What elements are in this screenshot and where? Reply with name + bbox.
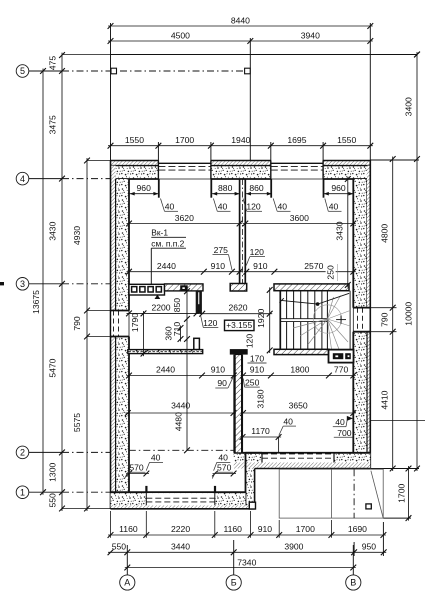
stair direction line with dot — [281, 300, 317, 304]
vent squares — [132, 287, 137, 292]
mid wall top cap — [230, 349, 248, 355]
top wall pier left (stipple) — [111, 166, 159, 179]
svg-text:40: 40 — [218, 202, 228, 212]
axis 4 circle — [16, 172, 29, 185]
left wall door opening dashes — [113, 311, 115, 337]
svg-text:1550: 1550 — [125, 135, 144, 145]
mid hatched wall (axis B lower) — [235, 355, 241, 453]
right wall door opening white — [354, 309, 369, 331]
left wall cladding band — [111, 166, 116, 509]
dimension row 1550/1700/1940/1695/1550 — [108, 145, 373, 147]
svg-text:2620: 2620 — [228, 303, 247, 313]
winder fan lines — [327, 296, 340, 320]
extension line x250 — [249, 38, 251, 161]
rotated 250 at right wall — [326, 265, 336, 280]
bottom chain 550/3440/3900/950 — [108, 551, 386, 553]
dim 570 left — [127, 473, 150, 475]
svg-text:3440: 3440 — [171, 401, 190, 411]
room dim row 3600 — [243, 223, 356, 225]
svg-text:170: 170 — [250, 354, 265, 364]
right wall cladding — [367, 166, 370, 469]
svg-text:40: 40 — [278, 202, 288, 212]
svg-text:3940: 3940 — [301, 30, 320, 40]
top wall pier middle — [211, 166, 271, 179]
step wall vertical — [246, 469, 255, 509]
top wall cladding over piers — [111, 161, 159, 166]
extension to circle A — [126, 545, 128, 575]
svg-text:3180: 3180 — [256, 389, 266, 408]
svg-text:3430: 3430 — [48, 221, 58, 240]
svg-text:1: 1 — [20, 487, 25, 497]
svg-text:360: 360 — [163, 326, 173, 341]
dim 570 right — [213, 473, 237, 475]
right wall stipple lower — [353, 332, 367, 453]
canopy post left — [111, 68, 117, 74]
svg-text:770: 770 — [334, 365, 349, 375]
jamb dim 960 left window — [129, 193, 158, 195]
stair left stringer — [279, 291, 281, 350]
svg-text:1800: 1800 — [290, 365, 309, 375]
axis 1 circle — [16, 486, 29, 499]
top wall pier right — [323, 166, 370, 179]
left wall door opening white — [111, 311, 115, 335]
thin wall hall/lower-left room — [128, 350, 203, 354]
svg-text:40: 40 — [165, 202, 175, 212]
svg-text:1700: 1700 — [175, 135, 194, 145]
bottom-left wall window opening — [146, 493, 215, 505]
jamb stub extensions — [158, 179, 160, 198]
svg-text:10000: 10000 — [404, 302, 414, 326]
vent block right (2 squares) — [329, 350, 354, 363]
right 1700 porch — [408, 466, 410, 521]
vent square inside beam — [180, 285, 188, 291]
svg-text:1695: 1695 — [287, 135, 306, 145]
dim 2620 — [200, 313, 273, 315]
vdim 360 — [180, 326, 182, 342]
note leader — [150, 248, 152, 285]
axis 4 line — [29, 178, 62, 180]
svg-text:910: 910 — [211, 365, 226, 375]
row 3440/3650 — [125, 412, 236, 414]
svg-text:570: 570 — [129, 463, 144, 473]
dimension 8440 top — [108, 25, 373, 27]
right overall 3400 / 10000 — [416, 52, 418, 471]
svg-text:910: 910 — [258, 524, 273, 534]
svg-text:40: 40 — [329, 202, 339, 212]
window W2 frame line — [271, 162, 323, 164]
svg-text:790: 790 — [72, 316, 82, 331]
axis 3 circle — [16, 278, 29, 291]
stair top beam (hatched) — [274, 284, 349, 291]
svg-text:4800: 4800 — [379, 224, 389, 243]
svg-text:2570: 2570 — [304, 261, 323, 271]
jamb dim 860 — [245, 193, 271, 195]
extension line right x370 — [369, 23, 371, 161]
axis V circle — [346, 575, 361, 590]
axis A circle — [120, 575, 135, 590]
svg-text:1920: 1920 — [256, 309, 266, 328]
mid row 2440/910 left — [127, 375, 237, 377]
svg-text:4930: 4930 — [72, 226, 82, 245]
svg-text:3600: 3600 — [290, 213, 309, 223]
dimension 4500 / 3940 — [108, 40, 373, 42]
axis B circle — [226, 575, 241, 590]
svg-text:550: 550 — [48, 493, 58, 508]
svg-text:475: 475 — [48, 56, 58, 71]
svg-text:см. п.п.2: см. п.п.2 — [151, 239, 184, 249]
svg-text:3650: 3650 — [289, 401, 308, 411]
svg-text:+3.155: +3.155 — [226, 320, 252, 330]
bottom overall 7340 — [125, 567, 356, 569]
svg-text:250: 250 — [326, 265, 336, 280]
window jamb stub right — [214, 486, 216, 492]
jamb dim 960 right window — [323, 193, 353, 195]
svg-text:2440: 2440 — [157, 261, 176, 271]
svg-text:910: 910 — [253, 261, 268, 271]
porch post on axis B — [366, 504, 371, 509]
left chain dimensions 475/3475/3430/5470/1300/550 — [61, 53, 63, 511]
svg-text:5575: 5575 — [72, 413, 82, 432]
svg-text:В: В — [350, 578, 356, 588]
window W1 frame line — [158, 162, 211, 164]
svg-text:120: 120 — [246, 202, 261, 212]
left wall stipple upper (to door) — [116, 179, 129, 311]
svg-text:700: 700 — [337, 428, 352, 438]
canopy post right — [245, 68, 251, 74]
bottom-left wall — [111, 492, 246, 505]
tick small left margin — [0, 282, 4, 285]
porch outline — [279, 469, 383, 518]
svg-text:3620: 3620 — [175, 213, 194, 223]
extension to circle B — [233, 540, 235, 575]
svg-text:4: 4 — [20, 174, 25, 184]
bottom-right wall door opening — [262, 454, 334, 463]
right chain 4800/790/4410 — [392, 157, 394, 472]
axis 2 line — [29, 451, 62, 453]
vent block Vk-1 row — [129, 284, 165, 295]
stair right edge — [349, 291, 351, 350]
svg-text:40: 40 — [335, 417, 345, 427]
hatched beam left of stair (wall) — [165, 284, 204, 291]
svg-text:3475: 3475 — [48, 115, 58, 134]
row 2440/910/275 left — [127, 271, 243, 273]
extension to circle V — [352, 545, 354, 575]
svg-text:13675: 13675 — [31, 290, 41, 314]
svg-text:3430: 3430 — [335, 221, 345, 240]
partition end pier (hatched) — [230, 284, 247, 292]
vdim 1920 stair — [269, 287, 271, 353]
mid row 910/1800/770 right — [241, 375, 356, 377]
svg-text:960: 960 — [331, 183, 346, 193]
svg-text:3: 3 — [20, 279, 25, 289]
svg-text:1690: 1690 — [348, 524, 367, 534]
svg-text:Б: Б — [231, 578, 237, 588]
svg-text:1300: 1300 — [48, 463, 58, 482]
svg-text:860: 860 — [249, 183, 264, 193]
svg-text:550: 550 — [112, 542, 127, 552]
porch diagonal — [371, 471, 383, 518]
svg-text:4500: 4500 — [171, 30, 190, 40]
bottom-right wall — [234, 453, 371, 463]
svg-text:880: 880 — [218, 183, 233, 193]
svg-text:40: 40 — [218, 453, 228, 463]
partition wall on axis B upper — [239, 179, 241, 284]
svg-text:1170: 1170 — [251, 426, 270, 436]
svg-text:120: 120 — [245, 334, 255, 349]
svg-text:7340: 7340 — [237, 558, 256, 568]
svg-text:А: А — [124, 578, 130, 588]
svg-text:4480: 4480 — [174, 412, 184, 431]
svg-text:3400: 3400 — [404, 97, 414, 116]
svg-text:120: 120 — [203, 318, 218, 328]
extension lines bottom — [382, 522, 384, 556]
svg-text:120: 120 — [250, 247, 265, 257]
svg-text:910: 910 — [211, 261, 226, 271]
dim 1170 — [240, 436, 281, 438]
svg-text:3440: 3440 — [171, 542, 190, 552]
svg-text:2440: 2440 — [156, 365, 175, 375]
svg-text:Вк-1: Вк-1 — [151, 228, 168, 238]
vent marker triangle — [155, 295, 161, 299]
svg-text:250: 250 — [245, 377, 260, 387]
vdim 850/710 at x187 — [186, 289, 188, 342]
room dim row 3620 — [127, 223, 243, 225]
svg-text:2220: 2220 — [171, 524, 190, 534]
svg-text:910: 910 — [250, 365, 265, 375]
window jamb stub left — [145, 486, 147, 492]
window W2 double dashed — [271, 165, 323, 167]
vdim 1790 — [143, 311, 145, 356]
right wall door opening dashes — [357, 308, 359, 332]
svg-text:8440: 8440 — [231, 15, 250, 25]
axis 1 line — [29, 491, 62, 493]
axis 2 circle — [16, 446, 29, 459]
left wall stipple lower — [116, 337, 129, 493]
extension lines building to bottom chain — [110, 511, 112, 538]
svg-text:2: 2 — [20, 448, 25, 458]
svg-text:570: 570 — [217, 463, 232, 473]
level mark +3.155 — [225, 320, 255, 330]
svg-text:5: 5 — [20, 66, 25, 76]
svg-text:1550: 1550 — [337, 135, 356, 145]
bottom chain 1160/2220/1160/910/1700/1690 — [108, 534, 386, 536]
interior vdim 3430 right room — [347, 177, 349, 288]
svg-text:275: 275 — [214, 245, 229, 255]
svg-text:1940: 1940 — [231, 135, 250, 145]
svg-text:2200: 2200 — [151, 302, 170, 312]
L-wall stub vertical — [194, 338, 200, 349]
row 910/2570 right — [244, 271, 356, 273]
svg-text:4410: 4410 — [379, 390, 389, 409]
svg-text:3900: 3900 — [284, 542, 303, 552]
extension lines to left chain — [62, 54, 111, 56]
canopy top edge line — [111, 54, 418, 56]
axis2 dash inside room — [129, 449, 234, 451]
svg-text:950: 950 — [362, 542, 377, 552]
axis B dashed through porch — [353, 469, 355, 518]
svg-text:5470: 5470 — [48, 358, 58, 377]
svg-text:90: 90 — [217, 378, 227, 388]
axis 5 line — [29, 70, 62, 72]
extension line right wall to 10000 line — [370, 159, 419, 161]
svg-text:1700: 1700 — [397, 484, 407, 503]
dim 2200 — [127, 312, 200, 314]
stair bottom beam (hatched) — [274, 349, 329, 354]
svg-text:850: 850 — [172, 298, 182, 313]
jamb dim 880 — [212, 193, 240, 195]
porch mid line — [330, 469, 332, 518]
svg-text:1700: 1700 — [296, 524, 315, 534]
svg-text:1160: 1160 — [223, 524, 242, 534]
svg-text:40: 40 — [151, 453, 161, 463]
extension line left x110.5 — [110, 23, 112, 161]
stair outline bottom of upper flight — [280, 318, 327, 320]
svg-text:1160: 1160 — [119, 524, 138, 534]
vdim 4480 — [186, 339, 188, 450]
stair treads — [286, 291, 288, 319]
right wall stipple upper — [353, 179, 367, 308]
axis 5 circle — [16, 65, 29, 78]
svg-text:960: 960 — [137, 183, 152, 193]
left chain 4930/790/5575 — [86, 158, 88, 511]
svg-text:790: 790 — [379, 312, 389, 327]
axis 3 line — [29, 283, 62, 285]
left overall 13675 — [42, 69, 44, 495]
wall stub below beam x196-202 — [196, 291, 202, 314]
porch post at step wall — [249, 502, 255, 509]
svg-text:40: 40 — [283, 416, 293, 426]
winder guide arc — [313, 305, 341, 333]
newel cross — [340, 316, 342, 324]
svg-text:1790: 1790 — [130, 313, 140, 332]
window W1 double dashed — [158, 165, 211, 167]
